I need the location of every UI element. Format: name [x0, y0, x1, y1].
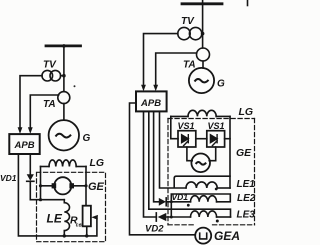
svg-text:TV: TV [181, 16, 195, 27]
svg-text:LG: LG [239, 106, 254, 118]
svg-text:VD1: VD1 [0, 173, 17, 183]
svg-text:GE: GE [236, 147, 252, 159]
svg-text:LE2: LE2 [237, 193, 256, 204]
svg-text:LE3: LE3 [237, 209, 256, 220]
svg-text:LG: LG [90, 157, 105, 169]
svg-text:LE: LE [47, 212, 63, 226]
svg-text:VD1: VD1 [172, 192, 189, 202]
svg-text:TV: TV [43, 60, 57, 71]
svg-text:LE1: LE1 [237, 179, 256, 190]
svg-text:GEA: GEA [214, 229, 240, 243]
svg-text:G: G [217, 79, 225, 90]
svg-text:TA: TA [43, 99, 56, 110]
svg-text:APB: APB [140, 98, 161, 109]
svg-text:GE: GE [88, 181, 105, 193]
svg-text:св: св [76, 223, 82, 229]
svg-text:VD2: VD2 [145, 224, 164, 235]
svg-text:APB: APB [14, 140, 35, 151]
svg-text:G: G [83, 133, 91, 144]
svg-text:VS1: VS1 [208, 121, 225, 131]
svg-text:VS1: VS1 [178, 121, 195, 131]
svg-text:TA: TA [183, 60, 196, 71]
